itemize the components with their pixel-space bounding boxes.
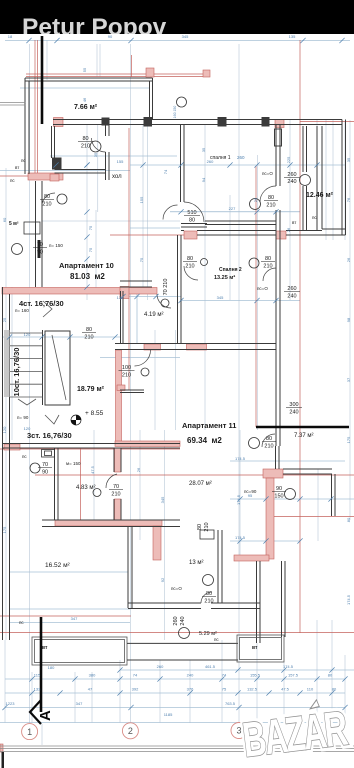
svg-text:Спалня 2: Спалня 2 <box>219 267 242 273</box>
svg-text:174.5: 174.5 <box>235 535 246 540</box>
svg-text:пс=О: пс=О <box>257 286 268 291</box>
svg-text:461.5: 461.5 <box>205 664 216 669</box>
svg-text:п= 90: п= 90 <box>17 415 29 420</box>
svg-text:347: 347 <box>71 616 78 621</box>
svg-text:345: 345 <box>217 295 224 300</box>
svg-text:47: 47 <box>88 687 93 692</box>
svg-text:240: 240 <box>287 294 296 300</box>
svg-text:240: 240 <box>180 616 186 625</box>
svg-text:75: 75 <box>139 257 144 262</box>
svg-text:60: 60 <box>2 217 7 222</box>
svg-text:260: 260 <box>287 286 296 292</box>
svg-text:260: 260 <box>207 159 214 164</box>
svg-text:210: 210 <box>122 373 131 379</box>
svg-text:240: 240 <box>287 179 296 185</box>
svg-text:227: 227 <box>229 206 236 211</box>
svg-text:п= 160: п= 160 <box>15 308 29 313</box>
svg-text:47.5: 47.5 <box>281 687 290 692</box>
svg-text:380: 380 <box>89 673 96 678</box>
svg-text:пс: пс <box>21 158 26 163</box>
svg-text:510: 510 <box>187 210 196 216</box>
svg-text:35: 35 <box>201 147 206 152</box>
svg-text:80: 80 <box>44 194 50 200</box>
svg-text:157.5: 157.5 <box>288 673 299 678</box>
svg-text:13 м²: 13 м² <box>189 560 203 566</box>
svg-text:70: 70 <box>42 462 48 468</box>
svg-text:7.37 м²: 7.37 м² <box>294 433 313 439</box>
svg-text:80: 80 <box>328 673 333 678</box>
svg-text:100: 100 <box>122 365 131 371</box>
svg-text:90: 90 <box>276 486 282 492</box>
svg-text:74: 74 <box>163 169 168 174</box>
svg-text:75: 75 <box>88 247 93 252</box>
svg-text:пс: пс <box>19 620 24 625</box>
svg-text:392: 392 <box>132 687 139 692</box>
svg-text:Апартамент 11: Апартамент 11 <box>182 421 236 430</box>
svg-text:18: 18 <box>8 34 13 39</box>
svg-text:94: 94 <box>201 177 206 182</box>
svg-text:2: 2 <box>128 726 133 736</box>
svg-text:70 210: 70 210 <box>163 279 169 296</box>
svg-text:98: 98 <box>346 317 351 322</box>
svg-text:81.03 м2: 81.03 м2 <box>70 272 105 281</box>
svg-text:347: 347 <box>76 701 83 706</box>
svg-text:175: 175 <box>346 436 351 443</box>
svg-text:80: 80 <box>265 256 271 262</box>
svg-text:пс: пс <box>214 637 219 642</box>
svg-text:120: 120 <box>24 426 31 431</box>
svg-text:3: 3 <box>236 726 241 736</box>
svg-text:вт: вт <box>42 645 48 651</box>
svg-text:28.07 м²: 28.07 м² <box>189 481 212 487</box>
svg-text:132.5: 132.5 <box>247 687 258 692</box>
svg-text:55: 55 <box>82 67 87 72</box>
svg-text:174.5: 174.5 <box>236 494 241 505</box>
svg-text:м= 150: м= 150 <box>66 461 81 466</box>
svg-text:1185: 1185 <box>164 712 173 717</box>
svg-text:150: 150 <box>274 494 283 500</box>
svg-text:174.5: 174.5 <box>346 594 351 605</box>
svg-text:135: 135 <box>289 34 296 39</box>
svg-text:вт: вт <box>292 220 296 225</box>
svg-text:Апартамент 10: Апартамент 10 <box>59 261 114 270</box>
svg-text:10ст. 16,76/30: 10ст. 16,76/30 <box>12 348 21 397</box>
svg-text:240: 240 <box>187 673 194 678</box>
svg-text:69.34 м2: 69.34 м2 <box>187 436 222 445</box>
svg-text:1: 1 <box>27 727 32 737</box>
svg-text:35: 35 <box>93 152 98 157</box>
svg-text:300: 300 <box>289 402 298 408</box>
svg-text:26: 26 <box>136 467 141 472</box>
svg-text:120: 120 <box>24 332 31 337</box>
svg-text:7.66 м²: 7.66 м² <box>74 104 98 111</box>
svg-text:76: 76 <box>346 197 351 202</box>
svg-text:5 м²: 5 м² <box>9 221 19 227</box>
svg-text:пс: пс <box>22 454 27 459</box>
svg-text:210: 210 <box>204 599 213 605</box>
svg-text:26: 26 <box>253 197 258 202</box>
svg-text:155: 155 <box>139 196 144 203</box>
svg-text:80: 80 <box>268 195 274 201</box>
svg-text:80: 80 <box>197 524 203 530</box>
svg-text:180: 180 <box>48 665 55 670</box>
svg-text:75: 75 <box>88 225 93 230</box>
svg-text:4.19 м²: 4.19 м² <box>144 312 163 318</box>
svg-text:376: 376 <box>187 687 194 692</box>
svg-text:174.5: 174.5 <box>235 456 246 461</box>
svg-text:135: 135 <box>117 295 124 300</box>
svg-text:26: 26 <box>346 257 351 262</box>
svg-text:210: 210 <box>266 203 275 209</box>
svg-text:п= 150: п= 150 <box>49 243 63 248</box>
svg-text:260: 260 <box>237 155 245 160</box>
svg-text:240: 240 <box>289 410 298 416</box>
svg-text:260: 260 <box>157 664 164 669</box>
svg-text:345: 345 <box>160 496 165 503</box>
svg-text:35: 35 <box>346 157 351 162</box>
svg-text:155: 155 <box>117 159 124 164</box>
svg-text:175: 175 <box>2 526 7 533</box>
svg-text:90: 90 <box>108 34 113 39</box>
svg-text:70: 70 <box>113 484 119 490</box>
svg-text:37: 37 <box>346 377 351 382</box>
svg-text:260: 260 <box>287 172 296 178</box>
svg-text:80: 80 <box>86 327 92 333</box>
svg-text:160 150: 160 150 <box>173 106 177 119</box>
svg-text:18.79 м²: 18.79 м² <box>77 386 105 393</box>
svg-text:210: 210 <box>81 144 90 150</box>
svg-text:174.5: 174.5 <box>283 664 294 669</box>
svg-text:74: 74 <box>133 673 138 678</box>
svg-text:90: 90 <box>42 470 48 476</box>
svg-text:80: 80 <box>82 136 88 142</box>
svg-text:210: 210 <box>185 264 194 270</box>
svg-text:120: 120 <box>2 426 7 433</box>
svg-text:80: 80 <box>189 218 195 224</box>
svg-text:3ст. 16,76/30: 3ст. 16,76/30 <box>27 431 72 440</box>
svg-text:90: 90 <box>37 250 43 256</box>
svg-text:вт: вт <box>252 645 258 651</box>
svg-text:12.46 м²: 12.46 м² <box>306 192 334 199</box>
svg-text:80: 80 <box>346 517 351 522</box>
svg-text:A: A <box>37 710 54 721</box>
svg-text:хол: хол <box>112 174 122 180</box>
svg-text:вт: вт <box>15 165 19 170</box>
svg-text:80: 80 <box>187 256 193 262</box>
svg-text:260: 260 <box>173 616 179 625</box>
svg-text:210: 210 <box>111 492 120 498</box>
svg-text:92: 92 <box>160 577 165 582</box>
svg-text:пс=О: пс=О <box>262 171 273 176</box>
svg-text:210: 210 <box>42 202 51 208</box>
svg-text:110: 110 <box>307 687 314 692</box>
svg-text:70: 70 <box>37 242 43 248</box>
svg-text:75: 75 <box>222 687 227 692</box>
svg-text:пс=О: пс=О <box>171 586 182 591</box>
svg-text:46: 46 <box>82 97 87 102</box>
svg-text:26: 26 <box>286 227 291 232</box>
svg-text:47.5: 47.5 <box>90 465 95 474</box>
svg-text:25: 25 <box>2 317 7 322</box>
svg-text:345: 345 <box>182 34 189 39</box>
svg-text:95: 95 <box>248 493 253 498</box>
svg-text:16.52 м²: 16.52 м² <box>45 562 71 569</box>
svg-text:115: 115 <box>34 673 41 678</box>
svg-text:225: 225 <box>286 156 291 163</box>
svg-text:210: 210 <box>84 335 93 341</box>
svg-text:210: 210 <box>264 444 273 450</box>
svg-text:763.5: 763.5 <box>225 701 236 706</box>
svg-text:133: 133 <box>34 687 41 692</box>
svg-text:4.83 м²: 4.83 м² <box>76 485 95 491</box>
svg-text:13.25 м²: 13.25 м² <box>214 274 235 281</box>
svg-text:+ 8.55: + 8.55 <box>85 410 104 417</box>
svg-text:пс: пс <box>312 215 317 220</box>
svg-text:пс: пс <box>10 178 15 183</box>
svg-text:4ст. 16,76/30: 4ст. 16,76/30 <box>19 299 64 308</box>
